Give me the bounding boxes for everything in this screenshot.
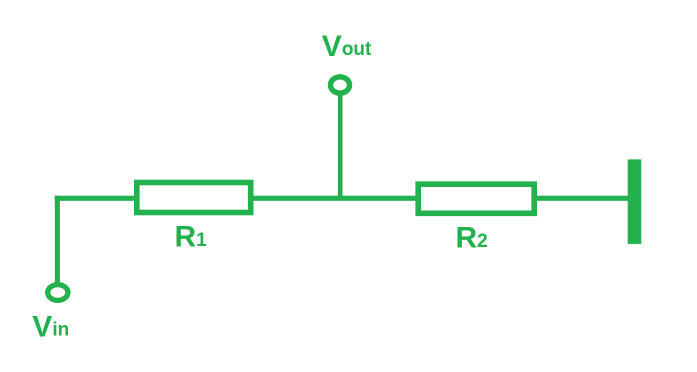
terminal Vout (331, 77, 350, 93)
svg-text:Vout: Vout (322, 30, 372, 63)
wire: main horizontal net (Vin corner to ground bar) (55, 196, 629, 201)
ground (628, 159, 642, 244)
terminal Vin (48, 285, 68, 301)
svg-text:R2: R2 (456, 222, 488, 255)
wire: Vout vertical segment (338, 92, 343, 200)
resistor R1 (137, 183, 251, 213)
resistor R2 (418, 184, 534, 213)
wire: Vin vertical segment (55, 196, 60, 285)
svg-text:Vin: Vin (32, 310, 69, 343)
svg-text:R1: R1 (175, 221, 208, 254)
